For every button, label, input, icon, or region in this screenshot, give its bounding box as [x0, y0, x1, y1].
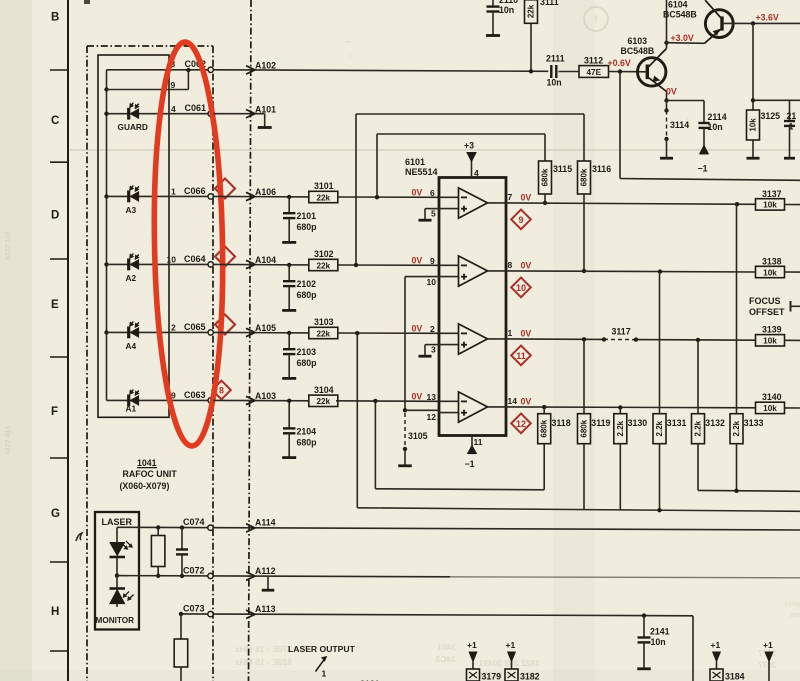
- wire A104 row: [213, 263, 308, 266]
- svg-text:3138: 3138: [762, 257, 782, 267]
- connector C066: [208, 194, 213, 199]
- red diamond at C065: [215, 315, 235, 335]
- arrow A103: [246, 396, 255, 404]
- wire row3 to IC: [338, 332, 439, 334]
- wire op4 output: [488, 406, 507, 408]
- wire cap 2102 stem bottom: [288, 286, 290, 310]
- wire 6103 emitter drop: [666, 92, 668, 101]
- svg-text:−1: −1: [698, 164, 708, 174]
- ground 3114: [660, 157, 673, 160]
- svg-text:0V: 0V: [412, 391, 423, 401]
- laser diode: [110, 543, 125, 556]
- svg-text:+1: +1: [711, 640, 721, 650]
- svg-text:B: B: [51, 12, 59, 24]
- wire A101 row: [213, 113, 264, 115]
- svg-text:A3: A3: [126, 205, 137, 215]
- laser capacitor: [176, 548, 188, 550]
- wire feedback bottom op4: [375, 489, 544, 490]
- svg-text:5: 5: [431, 209, 436, 219]
- wire cap 2103 stem top: [288, 333, 290, 349]
- row tick 3: [50, 258, 68, 260]
- svg-text:C061: C061: [185, 103, 207, 113]
- ground 3105: [398, 464, 412, 467]
- node laser monitor mid: [115, 573, 119, 577]
- svg-text:4: 4: [474, 168, 479, 178]
- svg-text:BC548B: BC548B: [663, 10, 697, 20]
- node feedback op4 input: [373, 399, 377, 403]
- resistor 3102 22k: [309, 259, 338, 270]
- svg-text:A4: A4: [126, 341, 137, 351]
- svg-text:9: 9: [430, 256, 435, 266]
- resistor 3117 dashed link: [604, 338, 636, 340]
- wire 2115 to ground: [789, 126, 791, 158]
- faint horizontal scan line y=150: [70, 149, 800, 151]
- svg-text:2104: 2104: [297, 426, 317, 436]
- connector C063: [208, 398, 213, 403]
- svg-text:1: 1: [508, 328, 513, 338]
- resistor 3103 22k: [309, 327, 338, 338]
- node +3.0V: [664, 41, 668, 45]
- ghost text right margin: [758, 649, 776, 670]
- laser resistor: [151, 536, 165, 567]
- svg-text:10k: 10k: [763, 404, 777, 413]
- node pin12 junction: [403, 408, 407, 412]
- wire row2 after 3138: [785, 271, 800, 273]
- ground A112: [262, 589, 275, 592]
- wire row4 after 3140: [785, 407, 800, 409]
- svg-text:FOCUS: FOCUS: [749, 296, 781, 306]
- row tick 2: [50, 161, 68, 163]
- svg-text:+3.6V: +3.6V: [756, 13, 779, 23]
- resistor 3119 680k: [578, 414, 591, 444]
- capacitor 2111: [550, 65, 552, 78]
- node emitter top: [664, 98, 668, 102]
- svg-text:C065: C065: [184, 322, 206, 332]
- svg-text:0V: 0V: [666, 87, 677, 97]
- transistor Q6104: [705, 10, 733, 38]
- wire 6104 collector to top: [704, 0, 707, 2]
- connector C073: [208, 611, 213, 616]
- wire 2114 bottom stem: [703, 128, 705, 153]
- LASER MONITOR box: [95, 512, 139, 630]
- wire 3105 to ground: [404, 449, 406, 465]
- ground 2141: [637, 667, 651, 670]
- svg-text:12: 12: [516, 419, 526, 429]
- wire A1 row: [107, 399, 209, 401]
- svg-text:3114: 3114: [670, 120, 689, 130]
- svg-text:3: 3: [431, 345, 436, 355]
- wire A106 row: [213, 195, 308, 198]
- ground cap 2103: [282, 377, 296, 380]
- svg-text:C072: C072: [183, 566, 205, 576]
- svg-text:4: 4: [171, 104, 176, 114]
- connector C074: [208, 525, 213, 530]
- svg-text:−1: −1: [465, 459, 475, 469]
- svg-text:10k: 10k: [763, 201, 777, 210]
- svg-text:820E - 15 MHz: 820E - 15 MHz: [235, 657, 292, 667]
- wire A2 row: [107, 263, 209, 265]
- red diamond 10: [511, 278, 531, 298]
- node monitor resistor top: [179, 612, 183, 616]
- svg-text:2103: 2103: [297, 347, 317, 357]
- node laser resistor top: [156, 525, 160, 529]
- svg-text:0V: 0V: [412, 187, 423, 197]
- focus offset input bracket: [790, 301, 792, 312]
- node cap 2101 tap: [287, 195, 291, 199]
- resistor 3139 10k: [756, 335, 785, 346]
- wire pin9 to pin3 riser: [187, 70, 189, 90]
- wire feedback op3 left drop: [356, 333, 358, 508]
- ghost text left margin vertical 1: [5, 231, 12, 260]
- wire C073 drop right: [692, 616, 694, 681]
- node row2 at x660: [658, 269, 662, 273]
- svg-text:0V: 0V: [521, 193, 532, 203]
- svg-text:+1: +1: [506, 640, 516, 650]
- wire row1 to IC: [338, 196, 439, 198]
- svg-text:3116: 3116: [592, 164, 611, 174]
- node 3114 bottom: [664, 137, 668, 141]
- wire 3132 bottom stem: [697, 444, 699, 491]
- node diode common at A2 row: [104, 262, 108, 266]
- svg-text:3139: 3139: [762, 325, 782, 335]
- resistor 3132 2.2k: [692, 414, 705, 444]
- svg-text:6: 6: [430, 188, 435, 198]
- resistor 3111 22k: [525, 0, 538, 23]
- photodiode A2: [127, 259, 130, 271]
- wire op2 minus stub: [439, 264, 459, 266]
- wire op3 output: [488, 338, 507, 340]
- wire A3 row: [107, 195, 209, 197]
- svg-text:3117: 3117: [612, 327, 631, 337]
- resistor 3114 dashed link: [666, 111, 668, 140]
- svg-text:270E - 15 MHz: 270E - 15 MHz: [235, 644, 292, 654]
- photodiode A3: [127, 191, 130, 203]
- wire cap 2103 stem bottom: [288, 354, 290, 378]
- wire pin 12: [405, 409, 439, 411]
- wire 3131 bottom stem: [659, 444, 661, 511]
- svg-text:2: 2: [171, 323, 176, 333]
- wire op1 plus stub: [439, 208, 459, 210]
- svg-text:10n: 10n: [547, 78, 562, 88]
- node laser cap top: [180, 525, 184, 529]
- node feedback op3 input: [355, 331, 359, 335]
- wire 3125 branch vertical: [752, 23, 754, 110]
- arrow A106: [246, 192, 255, 200]
- IC pin 11 stem: [471, 436, 473, 448]
- node emitter second: [664, 108, 668, 112]
- resistor 3116 680k: [578, 161, 591, 194]
- supply arrow minus1 2114: [700, 146, 709, 154]
- row tick 4: [50, 356, 68, 358]
- node diode common at pin9 row: [104, 87, 108, 91]
- wire op2 output: [488, 270, 507, 272]
- ghost text right edge small: [784, 601, 800, 619]
- resistor 3131 2.2k: [653, 414, 666, 444]
- ghost text left margin vertical 2: [5, 426, 12, 455]
- svg-text:47E: 47E: [587, 68, 602, 77]
- wire GUARD row: [107, 113, 209, 115]
- wire row4 output run: [506, 406, 756, 409]
- svg-text:A102: A102: [255, 61, 276, 71]
- wire A101 to ground: [264, 114, 266, 127]
- svg-text:0V: 0V: [412, 255, 423, 265]
- wire pin 9 row: [107, 89, 189, 91]
- arrow A114: [246, 524, 255, 532]
- supply arrow plus3: [467, 153, 476, 162]
- wire feedback bottom bus op3: [357, 508, 800, 512]
- wire 3115 top stem: [544, 134, 546, 161]
- wire pin 3: [425, 344, 439, 346]
- wire cap 2104 stem top: [288, 401, 290, 429]
- wire 3132 top stem: [697, 340, 699, 414]
- wire row1 output run: [506, 203, 756, 204]
- wire emitter to 2114: [667, 100, 705, 102]
- wire laser resistor top stem: [157, 528, 159, 536]
- svg-text:BC548B: BC548B: [621, 46, 655, 56]
- main board dash-dot boundary: [249, 0, 252, 681]
- wire op3 plus stub: [439, 344, 459, 346]
- wire 3114 to ground: [666, 139, 668, 158]
- wire 3116 top stem: [583, 114, 585, 161]
- svg-text:3182: 3182: [520, 672, 540, 681]
- wire feedback outer top: [356, 113, 584, 115]
- wire op4 plus stub: [439, 412, 459, 414]
- wire cap 2101 stem top: [288, 197, 290, 213]
- svg-text:3103: 3103: [314, 317, 334, 327]
- row tick 5: [50, 457, 68, 459]
- wire feedback op4 left drop: [374, 401, 376, 489]
- laser cap stem bottom: [181, 554, 183, 576]
- svg-text:MONITOR: MONITOR: [96, 616, 135, 625]
- wire +3.6V rail: [724, 22, 800, 24]
- svg-text:A113: A113: [255, 604, 276, 614]
- wire 2141 stem: [643, 616, 645, 638]
- connector C072: [208, 573, 213, 578]
- resistor 3138 10k: [756, 266, 785, 277]
- svg-text:GUARD: GUARD: [118, 122, 148, 132]
- svg-text:6103: 6103: [628, 36, 648, 46]
- svg-text:9: 9: [171, 80, 176, 90]
- svg-text:3132: 3132: [705, 418, 725, 428]
- capacitor 2101: [283, 212, 295, 214]
- op-amp U1a: [459, 188, 488, 218]
- resistor 3104 22k: [309, 395, 338, 406]
- wire cap 2101 stem bottom: [288, 218, 290, 242]
- ground 2110: [486, 34, 500, 37]
- svg-text:680k: 680k: [580, 419, 589, 437]
- svg-text:2141: 2141: [650, 627, 670, 637]
- wire C073 row: [181, 614, 693, 616]
- connector C064: [208, 262, 213, 267]
- svg-text:0V: 0V: [412, 323, 423, 333]
- wire 3118 top stem: [543, 407, 545, 414]
- resistor 3140 10k: [756, 402, 785, 413]
- svg-text:3104: 3104: [314, 385, 334, 395]
- node diode common at A3 row: [104, 194, 108, 198]
- resistor 3130 2.2k: [614, 414, 627, 444]
- svg-text:A1: A1: [126, 404, 137, 414]
- svg-text:C: C: [51, 115, 59, 127]
- op-amp U1b: [459, 256, 488, 286]
- wire monitor resistor bottom: [180, 667, 182, 681]
- svg-text:A112: A112: [255, 566, 276, 576]
- svg-text:22k: 22k: [527, 4, 536, 18]
- transistor Q6103: [638, 58, 666, 86]
- svg-text:10k: 10k: [749, 118, 758, 132]
- wire focus takeoff drop: [619, 72, 621, 179]
- svg-text:C064: C064: [184, 254, 206, 264]
- wire C074 row: [117, 527, 800, 530]
- capacitor 2115 edge: [784, 120, 795, 122]
- svg-text:9: 9: [518, 215, 523, 225]
- svg-text:6101: 6101: [405, 157, 425, 167]
- svg-text:A106: A106: [255, 187, 276, 197]
- node row4 at 3130: [618, 405, 622, 409]
- svg-text:+3: +3: [464, 141, 474, 151]
- wire laser to monitor: [116, 557, 118, 589]
- wire cap 2102 stem top: [288, 265, 290, 281]
- arrow A112: [246, 572, 255, 580]
- ground 3125: [747, 157, 760, 160]
- svg-text:680p: 680p: [297, 437, 318, 447]
- wire 3112 to 6103 base: [609, 71, 647, 73]
- svg-text:22k: 22k: [316, 261, 330, 270]
- svg-text:0V: 0V: [521, 261, 532, 271]
- svg-text:F: F: [51, 406, 58, 418]
- svg-text:3125: 3125: [761, 111, 781, 121]
- svg-text:4822 416: 4822 416: [5, 426, 12, 455]
- svg-text:3119: 3119: [591, 418, 610, 428]
- svg-text:G: G: [51, 508, 60, 520]
- row tick 6: [50, 561, 68, 563]
- svg-text:10: 10: [427, 277, 437, 287]
- monitor light arrows: [124, 592, 130, 598]
- node cap 2102 tap: [287, 263, 291, 267]
- wire A102 row: [213, 70, 548, 72]
- wire op4 minus stub: [439, 400, 459, 402]
- svg-text:3977: 3977: [758, 661, 776, 670]
- red diamond 12: [511, 414, 531, 434]
- svg-text:8: 8: [508, 260, 513, 270]
- svg-text:3179: 3179: [482, 672, 502, 681]
- svg-text:RAFOC UNIT: RAFOC UNIT: [123, 469, 178, 479]
- svg-text:2111: 2111: [546, 54, 565, 64]
- svg-text:1: 1: [171, 187, 176, 197]
- wire 3130 top stem: [619, 408, 621, 415]
- svg-text:11: 11: [474, 437, 483, 447]
- wire monitor resistor stem: [180, 614, 182, 639]
- svg-text:3111: 3111: [540, 0, 559, 7]
- svg-text:2.2k: 2.2k: [616, 420, 625, 436]
- svg-text:::: ::: [348, 51, 353, 60]
- wire A112 ground stem: [267, 576, 269, 589]
- wire 3119 bottom stem: [583, 444, 585, 510]
- svg-text:0V: 0V: [521, 397, 532, 407]
- svg-text:10: 10: [516, 283, 526, 293]
- svg-text:7: 7: [508, 192, 513, 202]
- svg-text:3133: 3133: [744, 418, 764, 428]
- svg-text:3118: 3118: [552, 418, 571, 428]
- svg-text:8122 116: 8122 116: [5, 231, 12, 260]
- svg-text:680p: 680p: [297, 222, 318, 232]
- svg-text:3102: 3102: [314, 249, 334, 259]
- wire pin 3 row: [107, 69, 209, 71]
- ground pin 3: [419, 355, 432, 358]
- arrow A105: [246, 328, 255, 336]
- svg-text:8: 8: [219, 385, 224, 395]
- svg-text:3140: 3140: [762, 392, 782, 402]
- wire op1 output: [488, 202, 507, 204]
- svg-text:NE5514: NE5514: [405, 167, 438, 177]
- wire row4 to IC: [336, 400, 439, 403]
- resistor 3105 dashed link: [404, 413, 406, 449]
- svg-text:pecs: pecs: [784, 601, 800, 608]
- wire laser chain upper: [116, 527, 118, 542]
- capacitor 2114: [699, 122, 710, 124]
- svg-text:2114: 2114: [708, 112, 727, 122]
- wire 3130 bottom stem: [619, 444, 621, 510]
- node 3117 left: [602, 337, 606, 341]
- wire 3111 stem: [530, 23, 532, 71]
- resistor 3125 10k: [747, 110, 760, 140]
- wire 6104 base link: [667, 42, 705, 45]
- laser emission arrows: [122, 543, 128, 549]
- red diamond 8 at C063: [212, 381, 231, 400]
- wire cap 2104 stem bottom: [288, 433, 290, 457]
- svg-text:3131: 3131: [667, 418, 687, 428]
- wire 3119 top stem: [583, 338, 585, 414]
- faint mark top-left edge: [84, 0, 90, 4]
- connector C062: [208, 67, 213, 72]
- node 3117 right: [634, 337, 638, 341]
- svg-text:4822 263 30491: 4822 263 30491: [478, 658, 540, 668]
- node 3133 bottom on bus: [734, 489, 738, 493]
- svg-text:A104: A104: [255, 255, 276, 265]
- laser cap stem top: [181, 528, 183, 550]
- resistor 3137 10k: [756, 199, 785, 210]
- op-amp U1c: [459, 324, 488, 354]
- resistor 3101 22k: [309, 191, 338, 202]
- monitor load resistor: [174, 639, 188, 667]
- connector C065: [208, 330, 213, 335]
- svg-text:+0.6V: +0.6V: [608, 58, 631, 68]
- svg-text:3101: 3101: [314, 181, 334, 191]
- svg-text:14: 14: [508, 396, 518, 406]
- svg-text:+1: +1: [763, 640, 773, 650]
- arrow A101: [246, 110, 255, 118]
- photodiode A1: [127, 395, 130, 407]
- svg-text:H: H: [51, 606, 59, 618]
- wire emitter node link: [666, 101, 668, 111]
- wire 3131 top stem: [659, 272, 661, 414]
- ground 2115: [784, 157, 795, 160]
- node laser cap bottom: [180, 574, 184, 578]
- wire pin 10 drop: [405, 276, 439, 278]
- wire pin 5: [425, 208, 439, 210]
- svg-text:10n: 10n: [708, 122, 723, 132]
- paper shading band near x=560: [553, 0, 595, 681]
- photodiode GUARD: [127, 108, 130, 120]
- capacitor 2110: [487, 5, 500, 7]
- node 3115 on row1 out: [543, 201, 547, 205]
- svg-text:A2: A2: [126, 273, 137, 283]
- wire 3118 bottom stem: [543, 444, 545, 490]
- ghost marks upper mid: [345, 37, 688, 122]
- node row1 at 3137: [735, 202, 739, 206]
- red diamond at C066: [215, 179, 235, 199]
- wire A103 row: [213, 399, 308, 401]
- svg-text:A114: A114: [255, 518, 276, 528]
